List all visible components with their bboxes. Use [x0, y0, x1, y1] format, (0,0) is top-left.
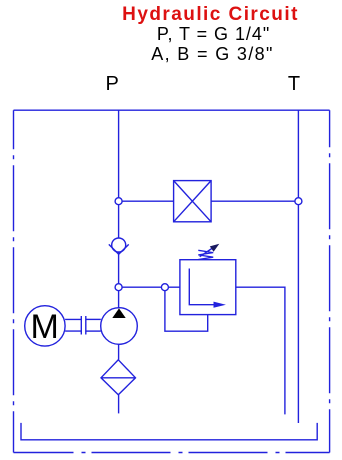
wire pump inlet to filter	[118, 344, 120, 360]
relief valve RV1 adjustment arrowhead	[210, 244, 220, 252]
wire check valve to junction 2	[118, 252, 120, 287]
pump P1 circle	[101, 308, 138, 345]
svg-text:A, B = G 3/8": A, B = G 3/8"	[151, 44, 274, 64]
node junction P line / X valve	[115, 198, 122, 205]
svg-text:P, T = G 1/4": P, T = G 1/4"	[157, 24, 270, 44]
check valve V1 seat right	[119, 244, 129, 254]
svg-text:T: T	[288, 73, 300, 95]
coupling bar 1	[80, 316, 82, 335]
node junction relief pilot	[161, 284, 168, 291]
enclosure right edge	[329, 110, 331, 452]
wire relief valve outlet to drain	[236, 287, 285, 414]
wire P junction to valve X box	[119, 200, 174, 202]
svg-text:P: P	[106, 73, 119, 95]
shaft motor side	[65, 318, 81, 320]
wire T port line	[297, 110, 299, 423]
relief valve RV1 spring	[198, 250, 213, 259]
wire P port drop	[118, 110, 120, 201]
coupling bar 2	[85, 316, 87, 335]
wire relief valve pilot drain	[165, 287, 208, 331]
valve X box diagonal 2	[174, 181, 212, 222]
filter F1 element line	[101, 377, 136, 379]
svg-text:Hydraulic Circuit: Hydraulic Circuit	[122, 4, 299, 25]
relief valve RV1 adjustment arrow shaft	[200, 246, 216, 257]
check valve V1 seat left	[109, 244, 119, 254]
relief valve RV1 body	[180, 260, 236, 315]
valve X box body	[174, 181, 212, 222]
check valve V1 circle	[112, 238, 126, 252]
wire valve X box to T junction	[211, 200, 298, 202]
wire junction 2 to relief valve	[119, 286, 180, 288]
tank outline	[21, 423, 317, 440]
enclosure bottom edge	[14, 452, 330, 454]
relief valve RV1 internal path	[189, 269, 214, 305]
pump P1 outlet triangle	[112, 308, 125, 318]
enclosure left edge	[13, 110, 15, 452]
enclosure top edge	[14, 109, 330, 111]
shaft motor side bottom	[65, 330, 81, 332]
node junction T line / X valve	[295, 198, 302, 205]
wire junction 2 to pump outlet	[118, 287, 120, 308]
shaft pump side bottom	[86, 330, 101, 332]
filter F1 diamond	[101, 360, 136, 395]
relief valve RV1 internal arrowhead	[214, 302, 226, 308]
wire junction P to check valve	[118, 201, 120, 238]
node junction P line / relief valve	[115, 284, 122, 291]
wire filter to tank	[118, 395, 120, 414]
motor M1 circle	[25, 306, 65, 346]
svg-text:M: M	[31, 308, 59, 346]
shaft pump side top	[86, 318, 101, 320]
valve X box diagonal 1	[174, 181, 212, 222]
